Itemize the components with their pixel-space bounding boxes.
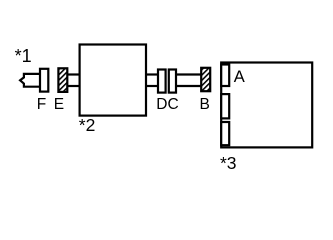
- wire box *2 to D (top prong): [146, 73, 158, 75]
- wire E to box *2 (bottom prong): [67, 85, 79, 87]
- svg-text:A: A: [234, 68, 245, 86]
- svg-text:*2: *2: [79, 115, 96, 135]
- wire box *2 to D (bottom prong): [146, 85, 158, 87]
- terminal tab (bottom): [221, 122, 229, 145]
- terminal tab (middle): [221, 94, 229, 118]
- connector D: [158, 70, 166, 93]
- terminal tab A (top): [221, 65, 229, 87]
- svg-text:*3: *3: [220, 153, 237, 173]
- svg-text:DC: DC: [156, 96, 178, 113]
- connector C: [169, 70, 176, 93]
- wire E to box *2 (top prong): [67, 73, 79, 75]
- wire C to B (top prong): [175, 73, 201, 75]
- box *3: [221, 63, 312, 148]
- svg-text:*1: *1: [15, 46, 32, 66]
- connector E (shielded): [58, 68, 67, 92]
- connector F: [40, 69, 48, 92]
- wire C to B (bottom prong): [175, 85, 201, 87]
- svg-text:E: E: [54, 96, 64, 113]
- connector B (shielded): [201, 68, 210, 91]
- box *2: [80, 45, 146, 116]
- svg-text:F: F: [37, 96, 46, 113]
- wire-end plug: [20, 74, 41, 87]
- svg-text:B: B: [200, 96, 210, 113]
